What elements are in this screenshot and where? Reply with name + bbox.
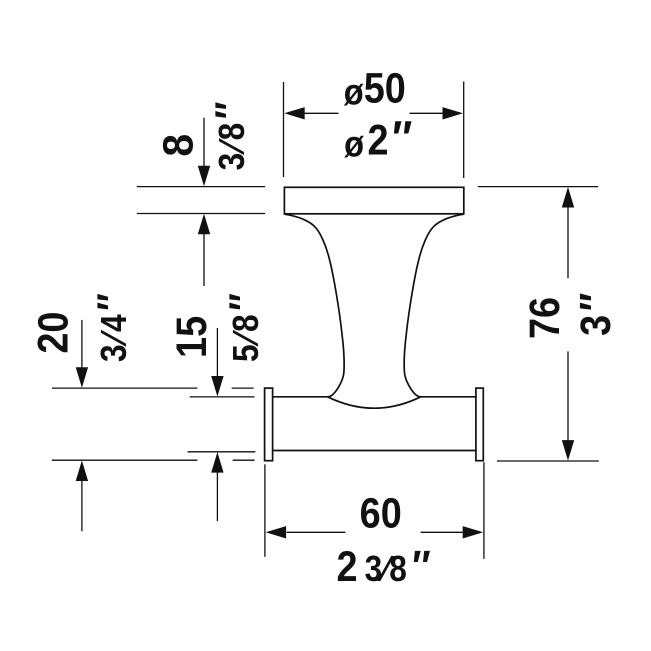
dim 60 right arrowhead — [463, 526, 484, 538]
dim 20 lower arrow line — [81, 480, 83, 531]
svg-text:3″: 3″ — [570, 289, 620, 336]
bar top edge left segment — [273, 396, 328, 398]
dim 15 lower extension line — [188, 451, 256, 453]
dim 76 lower arrowhead — [562, 440, 574, 461]
svg-text:5⁄8″: 5⁄8″ — [221, 290, 268, 362]
dim 20 upper arrow line — [81, 320, 83, 369]
svg-text:60: 60 — [360, 488, 402, 537]
dim 15 upper extension line — [190, 396, 255, 398]
dim 76 line upper segment — [567, 207, 569, 279]
dim 8 upper arrow line — [203, 118, 205, 168]
dim 8 lower extension line — [137, 213, 265, 215]
hook funnel right silhouette — [404, 214, 463, 396]
hook funnel left silhouette — [285, 214, 344, 396]
dim 60 left arrowhead — [266, 526, 287, 538]
dim ø50 right arrowhead — [443, 107, 464, 119]
svg-text:76: 76 — [520, 297, 569, 339]
hook funnel base arc — [328, 397, 421, 408]
dim 60 left extension line — [264, 464, 266, 557]
dim 20 upper extension line — [52, 387, 254, 389]
dim 60 line right — [421, 531, 463, 533]
bar top edge right segment — [421, 396, 476, 398]
dim ø50 line right — [410, 112, 445, 114]
svg-text:20: 20 — [28, 312, 77, 354]
dim 8 upper arrowhead — [198, 166, 210, 187]
dim 76 lower extension line — [497, 460, 599, 462]
left end cap — [265, 388, 273, 461]
dim 20 lower extension line — [52, 459, 255, 461]
dim 8 lower arrowhead — [198, 214, 210, 235]
dim 15 lower arrow line — [216, 471, 218, 521]
dim 8 lower arrow line — [203, 233, 205, 287]
svg-text:8: 8 — [154, 134, 202, 157]
dim 76 line lower segment — [567, 351, 569, 441]
svg-text:3⁄8″: 3⁄8″ — [207, 98, 254, 170]
right end cap — [476, 388, 483, 461]
dim ø50 line left — [304, 112, 339, 114]
dim ø50 left arrowhead — [284, 107, 305, 119]
dim 15 upper arrowhead — [211, 376, 223, 397]
dim 15 upper arrow line — [216, 328, 218, 378]
hook top plate — [284, 187, 463, 214]
dim 20 lower arrowhead — [76, 461, 88, 482]
dim 60 line left — [287, 531, 346, 533]
dim ø50 left extension line — [283, 82, 285, 177]
bar bottom edge — [273, 450, 476, 452]
svg-text:3⁄4″: 3⁄4″ — [89, 290, 136, 362]
dim 8 upper extension line — [137, 186, 265, 188]
dim 76 upper extension line — [478, 186, 598, 188]
svg-text:ø50: ø50 — [344, 63, 406, 113]
dim 60 right extension line — [483, 462, 485, 559]
dim 20 upper arrowhead — [76, 367, 88, 388]
dim 15 lower arrowhead — [211, 452, 223, 473]
svg-text:15: 15 — [167, 316, 216, 358]
dim 76 upper arrowhead — [562, 187, 574, 208]
dim ø50 right extension line — [463, 82, 465, 179]
